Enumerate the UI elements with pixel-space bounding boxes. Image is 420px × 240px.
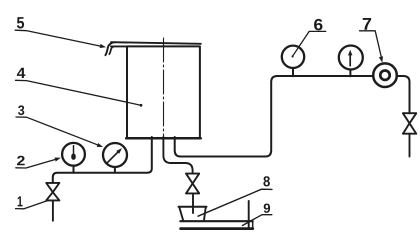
valve V1 (46, 183, 59, 201)
tray 9 right wall (248, 201, 250, 227)
label 7 leader (360, 31, 382, 58)
label 1 leader (16, 201, 48, 209)
lid 5 top line (111, 42, 201, 44)
indicator 7 outer circle (373, 63, 397, 87)
wire mid gauge stem (349, 70, 351, 77)
wire gauge 6 stem (292, 68, 294, 76)
tray 9 (180, 220, 252, 222)
tank 4 bottom (126, 137, 201, 140)
label 6 (314, 19, 322, 31)
valve V8 (drain valve) (186, 174, 199, 194)
label 6 leader (293, 31, 326, 56)
lid 5 left curl outer (105, 42, 115, 55)
funnel 8 (179, 206, 207, 208)
wire gauge 3 stem (114, 167, 116, 173)
gauge arrow pointer (349, 55, 351, 66)
lid 5 lower line (111, 45, 127, 47)
gauge 6 body (282, 46, 304, 68)
tank centerline (dash-dot) (163, 38, 165, 138)
label 5 leader (15, 30, 101, 46)
wire drain valve outlet stem (192, 193, 194, 213)
thermometer 2 stem and bulb (73, 146, 75, 154)
gauge 3 body (103, 143, 127, 167)
wire tank outlet to right manifold (175, 76, 410, 157)
label 8 (263, 176, 270, 186)
gauge (vertical arrow) body (339, 46, 363, 70)
valve V7 (right valve) (403, 113, 416, 134)
label 3 leader (16, 117, 98, 145)
label 7 (363, 18, 371, 30)
label 3 (18, 105, 24, 115)
label 8 leader (198, 189, 272, 216)
wire tank drain S-pipe (163, 137, 192, 174)
wire gauge 2 stem (73, 165, 75, 172)
label 2 leader (16, 159, 56, 168)
label 9 leader (243, 215, 272, 226)
lid 5 left curl inner (109, 46, 115, 54)
wire right valve outlet stem (409, 134, 411, 157)
tank 4 body (127, 46, 200, 138)
indicator 7 inner circle (380, 71, 389, 80)
label 1 (18, 196, 23, 206)
wire left manifold pipe (valve 1 riser to tank) (53, 137, 152, 183)
label 2 (17, 156, 25, 166)
thermometer 2 body (62, 143, 85, 166)
gauge 3 needle (107, 152, 118, 163)
label 9 (264, 204, 270, 213)
label 4 (17, 68, 25, 78)
label 5 (17, 17, 24, 28)
wire valve 1 outlet stem (52, 200, 54, 220)
label 4 leader (16, 80, 141, 105)
